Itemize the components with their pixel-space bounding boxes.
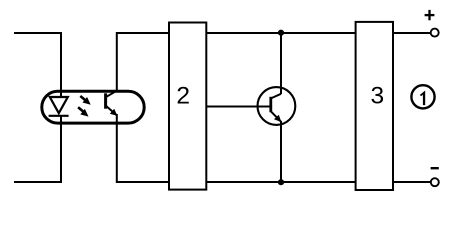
block 3	[356, 22, 393, 190]
light arrow 2	[78, 107, 88, 116]
wire Q1 emitter vertical	[280, 121, 282, 182]
minus sign	[431, 167, 439, 169]
wire LED cathode vertical	[60, 116, 62, 183]
optocoupler U1 body	[42, 91, 144, 123]
wire bottom rail to block 2	[117, 181, 170, 183]
phototransistor	[106, 91, 118, 116]
terminal plus circle	[431, 29, 439, 37]
wire top rail block3 to terminal	[393, 32, 431, 34]
wire phototransistor collector up	[116, 32, 118, 92]
plus sign	[425, 10, 435, 20]
svg-text:2: 2	[176, 83, 190, 110]
LED D1	[49, 97, 69, 116]
wire input top stub	[14, 32, 61, 34]
svg-text:3: 3	[370, 83, 384, 110]
wire Q1 collector vertical	[280, 33, 282, 94]
wire bottom rail block2 to block3	[206, 181, 355, 183]
transistor Q1	[258, 87, 296, 125]
terminal minus circle	[431, 178, 439, 186]
light arrow 1	[80, 96, 90, 105]
wire base line block2 to Q1	[206, 106, 271, 108]
wire LED anode vertical	[60, 32, 62, 97]
node 1 marker	[411, 85, 434, 108]
wire top rail block2 to block3	[206, 32, 355, 34]
wire bottom rail block3 to terminal	[393, 181, 431, 183]
junction top	[278, 30, 284, 36]
wire phototransistor emitter down	[116, 114, 118, 183]
wire top rail to block 2	[117, 32, 170, 34]
junction bottom	[278, 179, 284, 185]
block 2	[169, 23, 206, 190]
wire input bottom stub	[14, 181, 61, 183]
